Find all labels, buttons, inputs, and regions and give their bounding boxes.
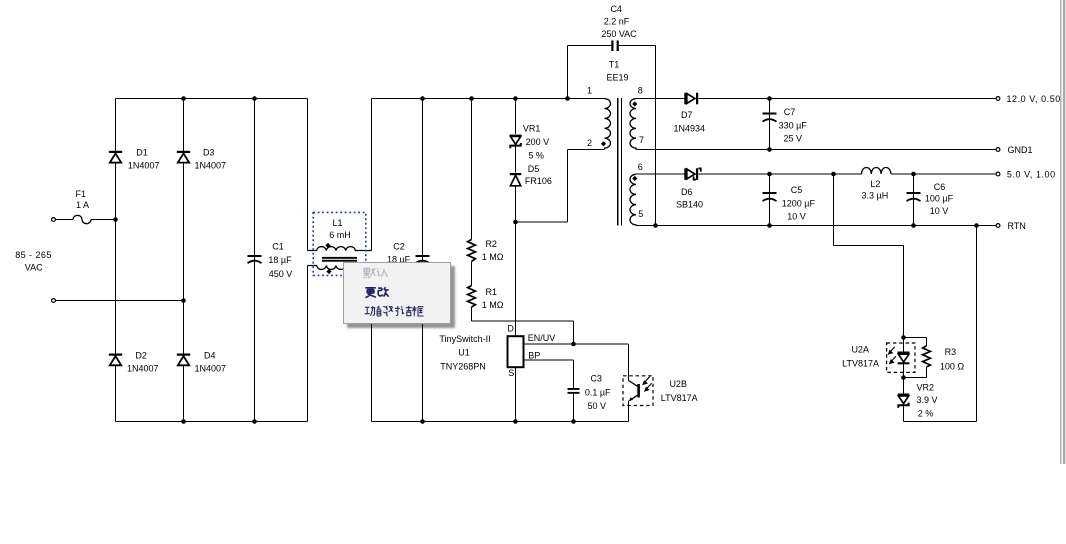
- svg-text:LTV817A: LTV817A: [842, 359, 879, 369]
- svg-text:RTN: RTN: [1008, 221, 1026, 231]
- svg-text:2: 2: [587, 138, 592, 148]
- svg-text:10 V: 10 V: [787, 212, 806, 222]
- svg-text:VAC: VAC: [25, 263, 43, 273]
- svg-text:C2: C2: [393, 242, 405, 252]
- svg-text:C1: C1: [272, 242, 284, 252]
- svg-text:D4: D4: [204, 350, 216, 360]
- svg-text:85 - 265: 85 - 265: [15, 250, 52, 260]
- svg-text:6 mH: 6 mH: [329, 230, 351, 240]
- svg-text:2.2 nF: 2.2 nF: [604, 17, 630, 27]
- svg-text:7: 7: [639, 135, 644, 145]
- svg-text:FR106: FR106: [525, 176, 552, 186]
- svg-text:1N4007: 1N4007: [195, 161, 227, 171]
- svg-text:C6: C6: [934, 182, 946, 192]
- svg-text:100 Ω: 100 Ω: [940, 362, 965, 372]
- svg-text:1N4934: 1N4934: [674, 124, 706, 134]
- svg-text:TinySwitch-II: TinySwitch-II: [439, 334, 490, 344]
- svg-text:1 MΩ: 1 MΩ: [482, 252, 504, 262]
- svg-text:0.1 µF: 0.1 µF: [585, 387, 611, 397]
- svg-text:1N4007: 1N4007: [128, 161, 160, 171]
- svg-text:S: S: [508, 368, 514, 378]
- svg-text:GND1: GND1: [1008, 145, 1033, 155]
- svg-text:200 V: 200 V: [526, 137, 550, 147]
- svg-text:330 µF: 330 µF: [779, 121, 808, 131]
- svg-text:U2A: U2A: [851, 345, 869, 355]
- svg-text:6: 6: [638, 162, 643, 172]
- svg-text:U2B: U2B: [669, 379, 687, 389]
- svg-text:25 V: 25 V: [783, 134, 802, 144]
- svg-text:TNY268PN: TNY268PN: [440, 361, 486, 371]
- svg-text:D1: D1: [136, 147, 148, 157]
- svg-text:EE19: EE19: [606, 73, 628, 83]
- svg-text:L1: L1: [332, 218, 342, 228]
- svg-text:1: 1: [587, 86, 592, 96]
- svg-text:1 MΩ: 1 MΩ: [482, 300, 504, 310]
- svg-text:EN/UV: EN/UV: [528, 333, 556, 343]
- svg-text:VR1: VR1: [523, 124, 541, 134]
- svg-text:3.3 µH: 3.3 µH: [862, 190, 889, 200]
- svg-text:D3: D3: [203, 147, 215, 157]
- svg-text:SB140: SB140: [676, 200, 703, 210]
- svg-text:12.0 V, 0.50: 12.0 V, 0.50: [1007, 94, 1061, 104]
- svg-text:R3: R3: [945, 347, 957, 357]
- svg-text:10 V: 10 V: [930, 206, 949, 216]
- svg-text:1200 µF: 1200 µF: [782, 199, 816, 209]
- svg-text:D7: D7: [681, 110, 693, 120]
- svg-text:1N4007: 1N4007: [195, 363, 227, 373]
- svg-text:D5: D5: [528, 164, 540, 174]
- svg-text:5.0 V, 1.00: 5.0 V, 1.00: [1007, 170, 1056, 180]
- svg-text:C7: C7: [784, 107, 796, 117]
- svg-text:8: 8: [638, 86, 643, 96]
- svg-text:250 VAC: 250 VAC: [601, 29, 637, 39]
- svg-text:18 µF: 18 µF: [268, 255, 292, 265]
- svg-text:T1: T1: [609, 60, 620, 70]
- svg-text:LTV817A: LTV817A: [661, 393, 698, 403]
- svg-text:1N4007: 1N4007: [127, 363, 159, 373]
- svg-text:5: 5: [638, 209, 643, 219]
- svg-text:100 µF: 100 µF: [925, 194, 954, 204]
- svg-text:1 A: 1 A: [76, 200, 89, 210]
- svg-text:U1: U1: [458, 348, 470, 358]
- svg-text:D: D: [507, 324, 514, 334]
- svg-text:C4: C4: [610, 4, 622, 14]
- svg-text:C5: C5: [791, 185, 803, 195]
- svg-text:R2: R2: [485, 239, 497, 249]
- svg-text:BP: BP: [528, 350, 540, 360]
- svg-text:2 %: 2 %: [918, 409, 934, 419]
- svg-text:R1: R1: [485, 287, 497, 297]
- svg-text:F1: F1: [76, 189, 87, 199]
- svg-text:D6: D6: [681, 187, 693, 197]
- svg-text:C3: C3: [590, 374, 602, 384]
- svg-text:5 %: 5 %: [528, 151, 544, 161]
- svg-text:L2: L2: [870, 179, 880, 189]
- svg-text:D2: D2: [135, 350, 147, 360]
- svg-text:50 V: 50 V: [587, 401, 606, 411]
- svg-text:3.9 V: 3.9 V: [916, 395, 937, 405]
- svg-text:450 V: 450 V: [269, 269, 293, 279]
- svg-text:VR2: VR2: [916, 382, 934, 392]
